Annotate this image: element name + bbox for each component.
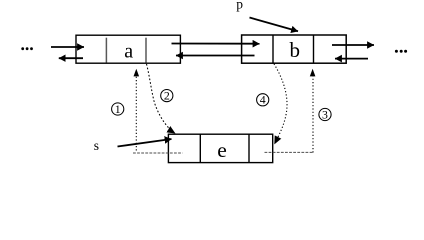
svg-text:p: p	[236, 0, 243, 11]
svg-text:s: s	[94, 138, 99, 153]
svg-text:a: a	[124, 40, 133, 62]
svg-text:b: b	[289, 38, 300, 62]
svg-text:e: e	[217, 138, 227, 162]
svg-text:3: 3	[322, 107, 328, 121]
svg-text:2: 2	[164, 89, 170, 103]
svg-text:4: 4	[260, 93, 266, 107]
svg-text:1: 1	[115, 102, 121, 116]
